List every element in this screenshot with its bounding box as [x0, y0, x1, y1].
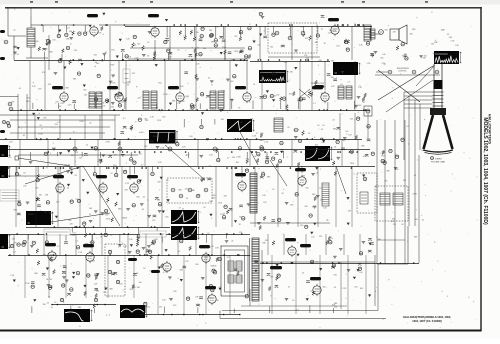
- svg-text:560: 560: [89, 208, 92, 210]
- svg-text:560: 560: [69, 31, 72, 33]
- svg-text:560: 560: [36, 41, 39, 43]
- svg-text:4.7: 4.7: [109, 250, 112, 252]
- svg-text:.01: .01: [129, 57, 132, 59]
- svg-text:.05: .05: [401, 224, 404, 226]
- svg-text:270K: 270K: [394, 169, 399, 171]
- svg-text:560: 560: [331, 77, 334, 79]
- svg-text:.01: .01: [304, 154, 307, 156]
- svg-text:4.7: 4.7: [363, 102, 366, 104]
- svg-text:270K: 270K: [49, 213, 54, 215]
- svg-text:.05: .05: [100, 196, 103, 198]
- svg-text:330: 330: [43, 304, 46, 306]
- svg-text:330: 330: [304, 206, 307, 208]
- svg-text:560: 560: [140, 132, 143, 134]
- svg-text:560: 560: [195, 264, 198, 266]
- svg-text:HALLICRAFTERS MODELS 1002, 100: HALLICRAFTERS MODELS 1002, 1003,: [403, 315, 451, 319]
- svg-text:560: 560: [380, 58, 383, 60]
- svg-text:.02: .02: [406, 126, 409, 128]
- svg-text:.05: .05: [322, 125, 325, 127]
- svg-text:100: 100: [52, 40, 55, 42]
- svg-text:4.7: 4.7: [163, 272, 166, 274]
- svg-text:560: 560: [101, 60, 104, 62]
- svg-text:220: 220: [79, 158, 82, 160]
- svg-text:100: 100: [354, 287, 357, 289]
- svg-text:270K: 270K: [326, 156, 331, 158]
- svg-text:.01: .01: [67, 27, 70, 29]
- svg-text:270K: 270K: [220, 214, 225, 216]
- svg-text:.01: .01: [19, 88, 22, 90]
- svg-text:4.7: 4.7: [57, 246, 60, 248]
- svg-text:270K: 270K: [110, 64, 115, 66]
- svg-text:100: 100: [359, 272, 362, 274]
- svg-text:.05: .05: [74, 175, 77, 177]
- svg-text:220: 220: [137, 97, 140, 99]
- svg-text:330: 330: [71, 155, 74, 157]
- svg-text:.05: .05: [39, 139, 42, 141]
- svg-text:4.7: 4.7: [72, 304, 75, 306]
- svg-text:330: 330: [385, 29, 388, 31]
- svg-text:330: 330: [212, 198, 215, 200]
- svg-text:PICTURE TUBE: PICTURE TUBE: [431, 162, 446, 164]
- svg-text:220: 220: [393, 224, 396, 226]
- svg-text:270K: 270K: [97, 32, 102, 34]
- svg-text:560: 560: [94, 55, 97, 57]
- svg-text:100: 100: [305, 38, 308, 40]
- svg-text:560: 560: [157, 181, 160, 183]
- svg-text:330: 330: [403, 180, 406, 182]
- svg-text:270K: 270K: [163, 94, 168, 96]
- svg-text:220: 220: [234, 36, 237, 38]
- svg-text:CONTROL: CONTROL: [398, 71, 407, 73]
- svg-text:.02: .02: [39, 125, 42, 127]
- svg-text:560: 560: [158, 83, 161, 85]
- svg-text:330: 330: [165, 217, 168, 219]
- svg-text:100: 100: [345, 131, 348, 133]
- svg-text:.05: .05: [147, 42, 150, 44]
- svg-text:560: 560: [137, 44, 140, 46]
- svg-text:220: 220: [27, 98, 30, 100]
- svg-text:100: 100: [382, 54, 385, 56]
- svg-text:.02: .02: [75, 198, 78, 200]
- svg-text:.05: .05: [94, 62, 97, 64]
- svg-text:270K: 270K: [234, 51, 239, 53]
- svg-text:100: 100: [103, 292, 106, 294]
- svg-text:100: 100: [139, 282, 142, 284]
- svg-text:560: 560: [334, 275, 337, 277]
- svg-text:4.7: 4.7: [13, 252, 16, 254]
- svg-text:270K: 270K: [222, 47, 227, 49]
- svg-text:330: 330: [173, 291, 176, 293]
- svg-text:330: 330: [321, 93, 324, 95]
- svg-text:.02: .02: [147, 306, 150, 308]
- svg-text:.05: .05: [383, 152, 386, 154]
- svg-text:220: 220: [130, 289, 133, 291]
- svg-text:.02: .02: [320, 28, 323, 30]
- svg-text:560: 560: [210, 266, 213, 268]
- svg-text:MODELS 1002, 1003, 1004, 1007: MODELS 1002, 1003, 1004, 1007 (Ch. F1100…: [482, 117, 488, 225]
- svg-text:.02: .02: [89, 242, 92, 244]
- svg-text:220: 220: [23, 186, 26, 188]
- svg-text:100: 100: [150, 141, 153, 143]
- svg-text:.01: .01: [182, 208, 185, 210]
- svg-text:100: 100: [189, 136, 192, 138]
- svg-text:VIDEO OUTPUT: VIDEO OUTPUT: [311, 83, 325, 85]
- svg-text:.01: .01: [231, 241, 234, 243]
- svg-text:270K: 270K: [106, 219, 111, 221]
- svg-text:100: 100: [49, 279, 52, 281]
- svg-text:330: 330: [196, 32, 199, 34]
- svg-text:330: 330: [203, 48, 206, 50]
- svg-text:.01: .01: [254, 156, 257, 158]
- svg-text:330: 330: [423, 58, 426, 60]
- svg-text:220: 220: [31, 214, 34, 216]
- svg-text:220: 220: [55, 101, 58, 103]
- svg-text:100: 100: [113, 165, 116, 167]
- svg-text:.02: .02: [127, 85, 130, 87]
- svg-text:4.7: 4.7: [227, 257, 230, 259]
- svg-text:.02: .02: [447, 34, 450, 36]
- svg-text:560: 560: [342, 140, 345, 142]
- svg-text:330: 330: [212, 195, 215, 197]
- svg-text:220: 220: [152, 220, 155, 222]
- svg-text:.05: .05: [177, 50, 180, 52]
- svg-text:.01: .01: [421, 219, 424, 221]
- svg-text:330: 330: [186, 155, 189, 157]
- svg-text:560: 560: [305, 188, 308, 190]
- svg-text:330: 330: [300, 225, 303, 227]
- svg-text:560: 560: [209, 30, 212, 32]
- svg-text:.01: .01: [315, 262, 318, 264]
- svg-text:330: 330: [393, 32, 396, 34]
- svg-text:4.7: 4.7: [227, 158, 230, 160]
- svg-text:270K: 270K: [236, 157, 241, 159]
- svg-text:17BP4: 17BP4: [435, 159, 442, 161]
- svg-text:.01: .01: [47, 302, 50, 304]
- svg-text:220: 220: [276, 95, 279, 97]
- svg-text:270K: 270K: [332, 31, 337, 33]
- svg-text:560: 560: [56, 191, 59, 193]
- svg-text:330: 330: [284, 62, 287, 64]
- svg-text:100: 100: [246, 158, 249, 160]
- svg-text:270K: 270K: [350, 163, 355, 165]
- svg-text:.02: .02: [272, 189, 275, 191]
- svg-text:220: 220: [239, 232, 242, 234]
- svg-text:220: 220: [74, 50, 77, 52]
- svg-text:.01: .01: [334, 147, 337, 149]
- svg-text:560: 560: [415, 219, 418, 221]
- svg-text:100: 100: [209, 201, 212, 203]
- svg-text:.05: .05: [332, 120, 335, 122]
- svg-text:.02: .02: [44, 212, 47, 214]
- svg-text:330: 330: [137, 287, 140, 289]
- svg-text:100: 100: [185, 189, 188, 191]
- svg-text:100: 100: [424, 56, 427, 58]
- svg-text:270K: 270K: [38, 134, 43, 136]
- svg-text:.01: .01: [253, 84, 256, 86]
- svg-text:.02: .02: [13, 29, 16, 31]
- svg-text:220: 220: [216, 300, 219, 302]
- svg-text:330: 330: [260, 133, 263, 135]
- svg-text:560: 560: [193, 105, 196, 107]
- svg-text:330: 330: [83, 89, 86, 91]
- svg-text:.05: .05: [63, 266, 66, 268]
- svg-text:330: 330: [111, 107, 114, 109]
- svg-text:.01: .01: [296, 310, 299, 312]
- svg-text:560: 560: [323, 287, 326, 289]
- svg-text:100: 100: [239, 217, 242, 219]
- svg-text:.02: .02: [54, 302, 57, 304]
- svg-text:4.7: 4.7: [123, 118, 126, 120]
- svg-text:220: 220: [159, 306, 162, 308]
- svg-text:.01: .01: [340, 84, 343, 86]
- svg-text:270K: 270K: [71, 235, 76, 237]
- svg-text:560: 560: [136, 197, 139, 199]
- svg-text:.01: .01: [94, 97, 97, 99]
- svg-text:270K: 270K: [79, 121, 84, 123]
- svg-text:330: 330: [392, 219, 395, 221]
- svg-text:220: 220: [230, 99, 233, 101]
- svg-text:330: 330: [290, 72, 293, 74]
- svg-text:.05: .05: [240, 122, 243, 124]
- svg-text:560: 560: [39, 194, 42, 196]
- svg-text:.02: .02: [85, 145, 88, 147]
- svg-text:.02: .02: [117, 97, 120, 99]
- svg-text:560: 560: [431, 44, 434, 46]
- svg-text:560: 560: [152, 243, 155, 245]
- svg-text:270K: 270K: [157, 120, 162, 122]
- svg-text:.05: .05: [143, 196, 146, 198]
- svg-text:.05: .05: [333, 287, 336, 289]
- svg-text:270K: 270K: [178, 217, 183, 219]
- svg-text:.02: .02: [16, 54, 19, 56]
- svg-text:270K: 270K: [146, 251, 151, 253]
- svg-text:.05: .05: [211, 246, 214, 248]
- svg-text:220: 220: [55, 124, 58, 126]
- svg-text:100: 100: [323, 208, 326, 210]
- svg-text:220: 220: [153, 136, 156, 138]
- svg-text:220: 220: [124, 218, 127, 220]
- svg-text:4.7: 4.7: [183, 35, 186, 37]
- svg-text:4.7: 4.7: [313, 103, 316, 105]
- svg-text:560: 560: [157, 199, 160, 201]
- svg-text:.02: .02: [73, 101, 76, 103]
- svg-text:.01: .01: [203, 207, 206, 209]
- svg-text:HALLICRAFTERS: HALLICRAFTERS: [488, 114, 492, 145]
- svg-text:560: 560: [449, 37, 452, 39]
- svg-text:560: 560: [120, 102, 123, 104]
- svg-text:330: 330: [318, 60, 321, 62]
- svg-text:560: 560: [331, 60, 334, 62]
- svg-text:330: 330: [155, 239, 158, 241]
- svg-text:.01: .01: [288, 286, 291, 288]
- svg-text:.05: .05: [326, 220, 329, 222]
- svg-text:560: 560: [230, 81, 233, 83]
- svg-text:330: 330: [105, 214, 108, 216]
- svg-text:.05: .05: [23, 173, 26, 175]
- svg-text:.05: .05: [89, 123, 92, 125]
- svg-text:.01: .01: [316, 173, 319, 175]
- svg-text:.02: .02: [321, 129, 324, 131]
- svg-text:330: 330: [232, 157, 235, 159]
- svg-text:.02: .02: [404, 53, 407, 55]
- svg-text:.05: .05: [166, 180, 169, 182]
- svg-text:.01: .01: [211, 108, 214, 110]
- svg-text:.05: .05: [287, 127, 290, 129]
- svg-text:270K: 270K: [105, 142, 110, 144]
- svg-text:.01: .01: [89, 214, 92, 216]
- svg-text:270K: 270K: [25, 283, 30, 285]
- svg-text:.05: .05: [141, 209, 144, 211]
- svg-text:330: 330: [321, 142, 324, 144]
- svg-text:330: 330: [378, 239, 381, 241]
- svg-text:220: 220: [12, 239, 15, 241]
- svg-text:560: 560: [56, 201, 59, 203]
- svg-text:4.7: 4.7: [75, 241, 78, 243]
- svg-text:4.7: 4.7: [118, 247, 121, 249]
- svg-text:.05: .05: [292, 300, 295, 302]
- svg-text:.05: .05: [302, 273, 305, 275]
- svg-text:.02: .02: [73, 232, 76, 234]
- svg-text:220: 220: [154, 54, 157, 56]
- svg-text:220: 220: [348, 134, 351, 136]
- svg-text:270K: 270K: [218, 203, 223, 205]
- svg-text:560: 560: [132, 287, 135, 289]
- svg-text:4.7: 4.7: [348, 81, 351, 83]
- svg-text:1004, 1007 (Ch. F1100D): 1004, 1007 (Ch. F1100D): [412, 319, 442, 323]
- svg-text:330: 330: [384, 181, 387, 183]
- svg-text:270K: 270K: [312, 206, 317, 208]
- svg-text:4.7: 4.7: [209, 166, 212, 168]
- svg-text:4.7: 4.7: [384, 64, 387, 66]
- svg-text:.05: .05: [152, 27, 155, 29]
- svg-text:.01: .01: [178, 251, 181, 253]
- svg-text:.01: .01: [257, 44, 260, 46]
- svg-text:100: 100: [381, 156, 384, 158]
- svg-text:.02: .02: [105, 52, 108, 54]
- svg-text:270K: 270K: [413, 193, 418, 195]
- svg-text:330: 330: [101, 103, 104, 105]
- svg-text:560: 560: [145, 120, 148, 122]
- svg-text:330: 330: [421, 150, 424, 152]
- svg-text:.02: .02: [100, 92, 103, 94]
- svg-text:100: 100: [162, 300, 165, 302]
- svg-text:220: 220: [319, 236, 322, 238]
- svg-text:.02: .02: [22, 135, 25, 137]
- svg-text:220: 220: [169, 57, 172, 59]
- svg-text:4.7: 4.7: [301, 27, 304, 29]
- svg-text:.01: .01: [413, 175, 416, 177]
- svg-text:100: 100: [270, 47, 273, 49]
- svg-text:.05: .05: [208, 78, 211, 80]
- svg-text:4.7: 4.7: [97, 161, 100, 163]
- svg-text:560: 560: [259, 140, 262, 142]
- svg-text:4.7: 4.7: [141, 165, 144, 167]
- svg-text:100: 100: [311, 237, 314, 239]
- svg-text:100: 100: [236, 162, 239, 164]
- svg-text:4.7: 4.7: [178, 207, 181, 209]
- svg-text:220: 220: [213, 93, 216, 95]
- svg-text:560: 560: [221, 119, 224, 121]
- svg-text:220: 220: [84, 95, 87, 97]
